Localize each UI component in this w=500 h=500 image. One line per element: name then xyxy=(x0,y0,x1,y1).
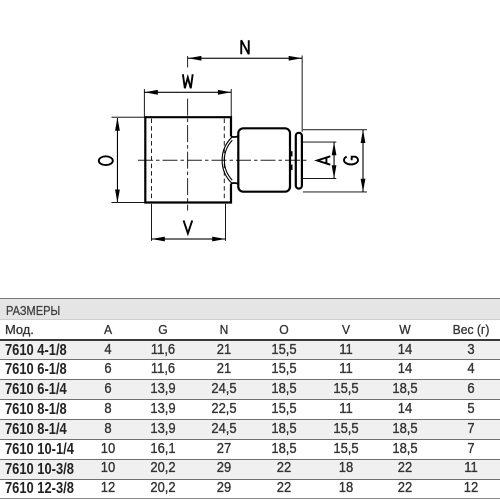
dim N label xyxy=(241,40,249,54)
dim N arrow left xyxy=(188,56,201,61)
dim W label xyxy=(183,74,193,88)
tab upper xyxy=(290,151,293,156)
sleeve xyxy=(238,128,290,191)
dim V ext left xyxy=(150,204,153,241)
table top border xyxy=(0,298,500,299)
dim O ext bottom xyxy=(112,201,145,204)
table header row xyxy=(0,320,500,340)
neck top xyxy=(231,136,238,137)
data row 1 xyxy=(0,341,500,359)
dim A ext bottom xyxy=(303,177,336,180)
dim G ext bottom xyxy=(303,191,367,194)
dim G arrow up xyxy=(361,130,366,143)
dim G label xyxy=(344,157,358,165)
data row 5 xyxy=(0,420,500,439)
dim G arrow down xyxy=(361,179,366,192)
dim A label xyxy=(317,156,330,164)
dim A arrow up xyxy=(332,142,337,155)
data row 3 xyxy=(0,380,500,399)
dim V line xyxy=(152,238,226,239)
ring xyxy=(296,133,302,189)
data row 2 xyxy=(0,360,500,379)
dim W arrow left xyxy=(145,90,158,95)
dim V arrow left xyxy=(152,237,165,242)
body bore hidden line left xyxy=(151,119,153,202)
data row 8 xyxy=(0,480,500,498)
dim O label xyxy=(99,156,113,165)
data row 6 xyxy=(0,440,500,459)
technical drawing of push-in fitting xyxy=(0,0,500,300)
centerline horizontal xyxy=(138,159,307,161)
dim N line xyxy=(188,58,302,59)
dim A ext top xyxy=(303,141,336,144)
centerline vertical xyxy=(187,56,189,68)
internal dome arc inner xyxy=(224,140,232,180)
dim N arrow right xyxy=(289,56,302,61)
dim V arrow right xyxy=(212,237,225,242)
dim O arrow down xyxy=(115,190,120,203)
table bottom border xyxy=(0,498,500,499)
dim G line xyxy=(362,130,363,192)
table title bar xyxy=(0,299,500,321)
dim W line xyxy=(145,92,232,93)
dim W arrow right xyxy=(218,90,231,95)
dim A arrow down xyxy=(332,165,337,178)
header underline xyxy=(0,339,500,341)
body xyxy=(145,117,231,202)
dim V label xyxy=(184,220,193,233)
dim W ext left xyxy=(143,89,146,117)
data row 4 xyxy=(0,400,500,419)
data row 7 xyxy=(0,460,500,479)
dim V ext right xyxy=(224,204,227,241)
tab lower xyxy=(290,165,293,170)
body bore hidden line right xyxy=(223,119,225,202)
internal dome arc outer xyxy=(222,137,232,183)
dim A line xyxy=(334,142,335,179)
dim G ext top xyxy=(303,128,367,131)
dim O line xyxy=(117,118,118,203)
neck bottom xyxy=(231,183,238,184)
dim W ext right xyxy=(230,89,233,117)
dim N ext right xyxy=(301,56,304,132)
dim O arrow up xyxy=(115,118,120,131)
dim O ext top xyxy=(112,116,145,119)
